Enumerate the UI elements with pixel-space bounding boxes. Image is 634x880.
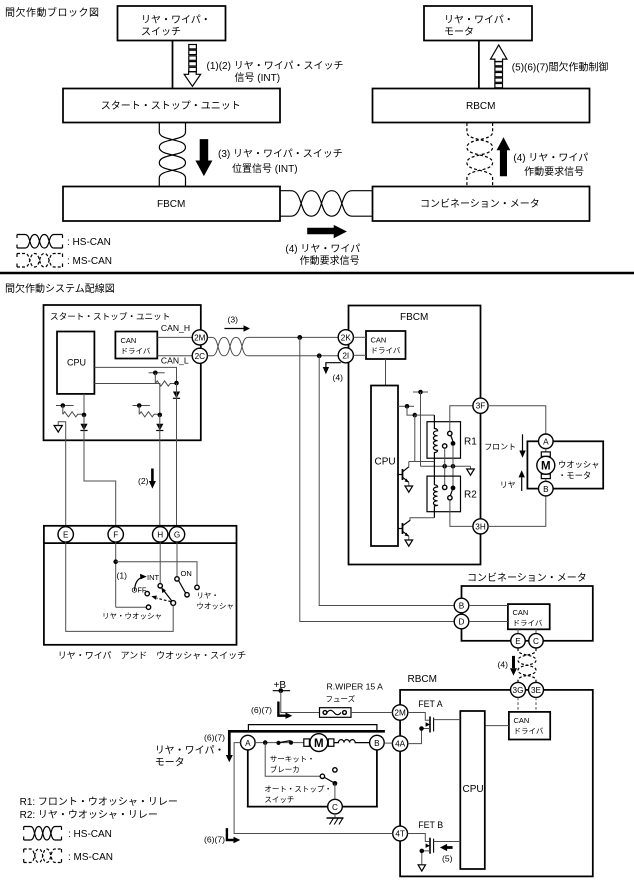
wire 2K to CAN driver (353, 336, 366, 338)
R2 armature (450, 490, 452, 495)
svg-text:CAN: CAN (371, 336, 387, 345)
svg-text:OFF: OFF (132, 586, 147, 595)
wire: H down to INT contact (159, 542, 161, 584)
resistor (unit mid) (139, 412, 160, 417)
relay R1 coil (433, 415, 437, 461)
wire: rail dot down to ground row (420, 392, 422, 466)
box: combination meter (wiring) (462, 586, 593, 641)
svg-text:D: D (459, 618, 465, 627)
connector A (rear motor) (241, 735, 256, 750)
arrow (2) small black down (138, 469, 156, 489)
svg-text:フロント: フロント (484, 443, 516, 452)
rear motor M symbol (304, 734, 334, 752)
svg-text:間欠作動ブロック図: 間欠作動ブロック図 (5, 6, 100, 19)
legend MS-CAN symbol (dashed) (17, 254, 112, 268)
arrow (6)(7) right at fuse (251, 702, 292, 719)
svg-text:フューズ: フューズ (326, 694, 356, 704)
wire: CPU to H line (94, 384, 159, 415)
FET A source wire to 4A (408, 729, 430, 744)
ON switch arm (179, 581, 186, 594)
wire: R1 NC down to R2 NC (444, 448, 446, 485)
junction dot (137, 403, 142, 408)
junction dots + breaker blade (263, 740, 293, 745)
svg-text:(5): (5) (442, 854, 453, 864)
wire: F line down, jog right, to connector F (84, 415, 116, 526)
wire: CPU bottom to F line (83, 394, 85, 415)
FET B symbol (426, 838, 434, 854)
svg-text:スイッチ: スイッチ (264, 795, 294, 804)
CAN_L bus wire (248, 355, 338, 357)
wire D to CAN driver (469, 621, 508, 623)
rear motor bracket (248, 725, 377, 732)
junction dot on G line (174, 381, 179, 386)
connector 2K (338, 330, 353, 345)
svg-text:CAN_H: CAN_H (161, 323, 190, 333)
stub rail with dot (top) (413, 390, 428, 395)
svg-text:R2: リヤ・ウオッシャ・リレー: R2: リヤ・ウオッシャ・リレー (20, 809, 158, 821)
connector G (169, 527, 184, 542)
+B terminal (273, 688, 290, 693)
svg-text:(3) リヤ・ワイパ・スイッチ: (3) リヤ・ワイパ・スイッチ (218, 148, 343, 160)
ground row wire (421, 465, 471, 467)
arrow (4) black up (497, 137, 511, 176)
label (3) wiper switch position signal (218, 148, 343, 175)
relay R1 box (427, 422, 477, 459)
junction dot on H line (158, 413, 163, 418)
box: rear wiper switch (118, 6, 226, 41)
svg-text:: HS-CAN: : HS-CAN (68, 829, 112, 840)
ground (FET B) (418, 865, 425, 871)
svg-text:3G: 3G (513, 686, 524, 695)
wire: pivot down and left to E (66, 542, 174, 631)
wire +B to fuse (281, 691, 320, 713)
dashed wires 3G/3E to CAN driver (518, 697, 536, 712)
svg-text:FET A: FET A (418, 699, 442, 709)
wire down from dot (154, 373, 156, 384)
pullup network top-right: stub (149, 372, 165, 374)
washer contact left (open) (146, 605, 150, 609)
svg-text:(1): (1) (117, 571, 128, 581)
wire: stub dot jog to node (407, 406, 415, 415)
label circuit breaker (270, 755, 315, 775)
FET B source wire to ground (422, 851, 430, 865)
twisted pair HS-CAN FBCM-meter (280, 191, 373, 217)
connector F (108, 527, 123, 542)
divider line (0, 272, 634, 274)
FET A gate wire to CPU (434, 719, 461, 721)
connector 3G (511, 682, 526, 697)
svg-text:C: C (533, 637, 539, 646)
svg-text:(3): (3) (228, 315, 239, 325)
svg-text:リヤ: リヤ (500, 481, 516, 490)
box: RBCM (wiring) (400, 690, 593, 877)
ground (chassis, below C) (327, 814, 344, 825)
svg-text:(4): (4) (498, 660, 509, 670)
svg-text:FBCM: FBCM (157, 199, 185, 210)
svg-text:2I: 2I (342, 351, 349, 360)
R1 armature to NO contact (451, 436, 453, 441)
CAN driver box (meter) (508, 604, 550, 629)
svg-text:2M: 2M (194, 333, 206, 342)
wire: node down to T1 collector row (414, 415, 416, 461)
svg-text:(2): (2) (138, 476, 149, 486)
connector C (rear motor) (328, 799, 343, 814)
arrow (4) black down (meter-RBCM) (498, 656, 518, 676)
svg-text:C: C (332, 803, 338, 812)
FET B drain wire from 4T (408, 834, 430, 842)
svg-text:リヤ・ワイパ・: リヤ・ワイパ・ (155, 745, 225, 757)
svg-text:2M: 2M (394, 709, 406, 718)
svg-text:サーキット・: サーキット・ (270, 755, 315, 764)
wire 3F to washer motor A (488, 406, 546, 434)
R2 NO contact (filled) (451, 486, 456, 491)
curved arrow (1) (117, 571, 147, 592)
ground (T2) (405, 540, 413, 546)
relay R2 coil (433, 462, 437, 518)
wire: switch to start-stop unit (172, 41, 174, 89)
arrow down (front) (519, 434, 525, 457)
arrow (3) thin right (224, 315, 250, 332)
wire down from dot (138, 406, 140, 415)
svg-text:(4) リヤ・ワイパ: (4) リヤ・ワイパ (513, 152, 588, 164)
CAN driver box (unit) (115, 332, 157, 359)
svg-text:H: H (157, 531, 163, 540)
junction dot CAN_L (317, 353, 322, 358)
svg-text:リヤ・: リヤ・ (196, 591, 219, 600)
wire 3F to R1 contact (450, 406, 473, 432)
svg-text:ウオッシャ: ウオッシャ (196, 602, 234, 611)
arrow (4) black right (307, 225, 347, 238)
svg-text:(4) リヤ・ワイパ: (4) リヤ・ワイパ (285, 243, 360, 255)
connector 2C (192, 348, 207, 363)
junction dot (61, 403, 66, 408)
wire rear motor B to 4A (384, 742, 392, 744)
wire down from dot (62, 406, 64, 415)
svg-text:(6)(7): (6)(7) (204, 835, 225, 845)
wire 2I to CAN driver (353, 354, 366, 356)
T1 collector row wire (409, 461, 435, 463)
wire: R2 output to 3H (450, 500, 473, 526)
svg-text:スタート・ストップ・ユニット: スタート・ストップ・ユニット (50, 312, 170, 322)
svg-text:リヤ・ワイパ・: リヤ・ワイパ・ (444, 14, 514, 26)
box: FBCM (block) (63, 187, 280, 222)
connector B (meter) (454, 598, 469, 613)
resistor (unit left) (63, 412, 84, 417)
svg-text:B: B (374, 739, 380, 748)
wire B to CAN driver (469, 605, 508, 607)
svg-text:3H: 3H (475, 522, 486, 531)
junction dot FET A source (419, 726, 424, 731)
svg-text:M: M (314, 738, 324, 750)
wire CAN driver to 2M (157, 336, 192, 338)
transistor T2 (398, 520, 410, 540)
legend MS-CAN symbol (bottom, dashed) (24, 849, 113, 863)
junction dots on ground row (442, 464, 447, 469)
connector 2I (338, 348, 353, 363)
svg-text:作動要求信号: 作動要求信号 (300, 254, 360, 267)
arrow up (rear) (519, 470, 525, 491)
connector rail line (44, 542, 237, 544)
svg-text:モータ: モータ (155, 757, 185, 769)
box: wiper and washer switch (44, 526, 237, 645)
arrow (5) black left (440, 844, 453, 864)
wire: ground to E line (58, 422, 65, 526)
rear motor box (247, 750, 378, 807)
label auto-stop switch (264, 785, 332, 805)
connector B (washer) (539, 481, 554, 496)
arrow (3) black down (195, 139, 212, 176)
connector B (rear motor) (370, 735, 385, 750)
svg-text:CPU: CPU (375, 457, 396, 468)
twisted pair HS-CAN unit-FBCM (159, 123, 185, 187)
svg-text:CAN: CAN (513, 608, 529, 617)
svg-text:スタート・ストップ・ユニット: スタート・ストップ・ユニット (101, 100, 241, 112)
wire: R2 coil bottom to T2 collector (410, 518, 434, 521)
CAN_H bus wire (248, 336, 338, 338)
svg-text:A: A (543, 438, 549, 447)
svg-text:ドライバ: ドライバ (371, 346, 401, 355)
switch arm dashed to OFF (151, 595, 171, 601)
junction dot CAN_H (297, 335, 302, 340)
svg-text:2K: 2K (341, 333, 352, 342)
transistor T1 (398, 462, 409, 487)
inductor (rear motor) (334, 740, 370, 743)
junction dot on F wire (113, 559, 118, 564)
svg-text:F: F (113, 531, 118, 540)
R1 NO contact (filled) (451, 441, 456, 446)
switch arm solid to INT (161, 587, 172, 601)
diode (F line) (80, 424, 87, 431)
svg-text:CAN_L: CAN_L (161, 356, 189, 366)
arrow (6)(7) thick left-down (204, 731, 385, 762)
label (1)(2) rear wiper switch signal (207, 60, 344, 84)
washer motor M symbol (537, 449, 555, 482)
connector 3E (529, 682, 544, 697)
svg-text:CAN: CAN (121, 336, 137, 345)
wire: G down to ON contact (176, 542, 178, 577)
wire: R1 NO down to R2 NO (452, 446, 454, 486)
diode (G line) (173, 392, 180, 399)
wire CAN driver to CPU (RBCM) (485, 725, 509, 727)
svg-text:位置信号 (INT): 位置信号 (INT) (232, 162, 298, 175)
svg-text:3F: 3F (476, 402, 486, 411)
ground (unit) (54, 426, 62, 433)
svg-text:ドライバ: ドライバ (514, 727, 544, 736)
svg-text:リヤ・ワイパ・: リヤ・ワイパ・ (141, 14, 211, 26)
junction dot on F line (82, 413, 87, 418)
svg-text:: MS-CAN: : MS-CAN (68, 852, 113, 863)
wire: H line down to connector H (159, 415, 161, 526)
svg-text:A: A (245, 739, 251, 748)
connector D (meter) (454, 614, 469, 629)
stub from CPU with dot (398, 404, 414, 409)
INT contact (open) (158, 584, 162, 588)
wire: CPU to G line (94, 367, 176, 383)
auto-stop pivot (open) (320, 774, 324, 778)
svg-text:RBCM: RBCM (466, 101, 495, 112)
legend HS-CAN symbol (17, 235, 111, 249)
FET B gate wire to CPU (434, 841, 461, 843)
wire: G line down to connector G (176, 383, 178, 526)
label rear wiper motor (155, 745, 225, 769)
connector E (meter) (511, 634, 525, 648)
svg-text:コンビネーション・メータ: コンビネーション・メータ (420, 198, 540, 210)
box: start-stop unit (wiring) (44, 305, 201, 440)
svg-text:B: B (459, 602, 465, 611)
connector A (washer) (539, 434, 554, 449)
connector E (58, 527, 73, 542)
CAN bus twisted pair unit-FBCM (207, 337, 248, 355)
R1 contact common (open) (448, 431, 452, 435)
ON contact (open) (175, 577, 179, 581)
ground (T1) (405, 486, 413, 492)
svg-text:3E: 3E (531, 686, 542, 695)
CPU box (FBCM) (371, 386, 398, 547)
junction dot (153, 371, 158, 376)
legend HS-CAN symbol (bottom) (24, 827, 112, 841)
box: rear wiper motor (424, 6, 532, 41)
svg-text:(1)(2) リヤ・ワイパ・スイッチ: (1)(2) リヤ・ワイパ・スイッチ (207, 60, 344, 72)
svg-text:(6)(7): (6)(7) (204, 733, 225, 743)
connector 4T (393, 826, 408, 841)
auto-stop upper contact (open) (333, 768, 337, 772)
svg-text:FBCM: FBCM (400, 312, 428, 323)
svg-text:ウオッシャ: ウオッシャ (558, 460, 600, 470)
svg-text:CPU: CPU (463, 784, 484, 795)
svg-text:R1: フロント・ウオッシャ・リレー: R1: フロント・ウオッシャ・リレー (20, 796, 178, 808)
svg-text:M: M (541, 461, 551, 473)
junction dot FET B source (420, 849, 425, 854)
junction dot node (413, 413, 418, 418)
arrow (6)(7) bottom right (204, 828, 240, 844)
FET A symbol (426, 717, 434, 733)
svg-text:(6)(7): (6)(7) (251, 705, 272, 715)
pullup network left: stub (56, 405, 74, 407)
svg-text:E: E (63, 531, 69, 540)
wire: F wire bottom to washer contact left (116, 606, 147, 608)
ground (relay row) (470, 466, 472, 469)
svg-text:作動要求信号: 作動要求信号 (524, 165, 584, 178)
connector H (153, 527, 168, 542)
twisted pair MS-CAN RBCM-meter (dashed) (467, 123, 493, 187)
wire: motor to RBCM (478, 41, 480, 89)
svg-text:FET B: FET B (418, 820, 443, 830)
wire A to breaker (255, 742, 304, 744)
label rear washer (right, 2 lines) (196, 591, 234, 611)
svg-text:(4): (4) (333, 373, 344, 383)
svg-text:CAN: CAN (514, 716, 530, 725)
svg-text:E: E (515, 637, 521, 646)
connector 2M (RBCM) (392, 705, 407, 720)
svg-text:CPU: CPU (67, 358, 86, 368)
wire CAN driver to CPU (385, 359, 387, 386)
diode (H line) (156, 424, 163, 431)
connector 3F (473, 398, 488, 413)
svg-text:(5)(6)(7)間欠作動制御: (5)(6)(7)間欠作動制御 (512, 61, 609, 74)
svg-text:リヤ・ウオッシャ: リヤ・ウオッシャ (102, 612, 162, 621)
svg-text:オート・ストップ・: オート・ストップ・ (264, 785, 332, 794)
svg-text:ブレーカ: ブレーカ (270, 764, 300, 774)
svg-text:G: G (174, 531, 180, 540)
wire fuse to 2M (351, 712, 392, 714)
OFF contact (open) (145, 591, 149, 595)
auto-stop lower contact (filled) (333, 781, 338, 786)
CPU box (RBCM) (460, 711, 485, 869)
washer contact right (open) (195, 585, 199, 589)
wire: CAN_H dot down to D (300, 337, 454, 621)
wire A to 4T (around left/bottom) (234, 743, 393, 834)
pullup network mid: stub (133, 405, 150, 407)
wire auto-stop: dot down and right (265, 743, 320, 777)
svg-text:・モータ: ・モータ (558, 471, 591, 481)
connector 3H (473, 519, 488, 534)
R1 NC contact (open) (443, 444, 447, 448)
svg-text:INT: INT (147, 573, 160, 582)
box: start-stop unit (block) (63, 89, 280, 123)
FET A drain wire from 2M (408, 713, 430, 721)
R2 output contact (open) (448, 496, 452, 500)
dashed twisted pair meter to RBCM (518, 648, 536, 682)
ladder arrow (5)(6)(7) up (491, 45, 507, 88)
box: FBCM (wiring) (349, 306, 481, 565)
wire CAN driver to 2C (157, 355, 192, 357)
wire: CAN_L dot down to B (319, 356, 454, 606)
svg-text:スイッチ: スイッチ (141, 26, 181, 38)
arrow (4) L-shaped down (323, 363, 343, 383)
wire: dot right and down to washer contact (116, 562, 197, 586)
switch pivot contact (open) (171, 601, 176, 606)
R2 NC contact (open) (443, 485, 447, 489)
CAN driver box (RBCM) (509, 712, 550, 740)
ladder arrow (1)(2) down (184, 45, 200, 87)
resistor (unit top-right) (155, 381, 176, 386)
svg-text:RBCM: RBCM (408, 674, 437, 685)
connector C (meter) (529, 634, 543, 648)
connector 2M (192, 330, 207, 345)
svg-text:ドライバ: ドライバ (121, 347, 151, 356)
fuse symbol (320, 708, 352, 718)
CPU box (unit) (57, 332, 94, 394)
box: RBCM (block) (373, 89, 590, 123)
label (4) wiper request signal (right) (513, 152, 588, 178)
wire CAN driver to E (517, 629, 519, 633)
ON arm lower contact (open) (185, 593, 189, 597)
svg-text:コンビネーション・メータ: コンビネーション・メータ (467, 572, 587, 584)
CAN driver box (FBCM) (366, 331, 406, 359)
wire lower contact to C (334, 783, 336, 799)
svg-text:R2: R2 (464, 490, 477, 501)
svg-text:: HS-CAN: : HS-CAN (67, 237, 111, 248)
label (4) wiper request signal (bottom) (285, 243, 360, 267)
wire: F down inside switch (115, 542, 117, 607)
wire CAN driver to C (535, 629, 537, 633)
svg-text:信号 (INT): 信号 (INT) (235, 72, 281, 84)
relay R2 box (427, 476, 477, 512)
wire: node to coil column (415, 414, 435, 416)
box: combination meter (block) (373, 187, 590, 222)
svg-text:間欠作動システム配線図: 間欠作動システム配線図 (5, 282, 115, 295)
svg-text:R1: R1 (464, 437, 477, 448)
svg-text:4A: 4A (395, 740, 406, 749)
svg-text:4T: 4T (395, 830, 405, 839)
wire washer motor B to 3H (488, 496, 546, 527)
svg-text:モータ: モータ (444, 26, 474, 38)
svg-text:ON: ON (181, 569, 192, 578)
svg-text:ドライバ: ドライバ (513, 619, 543, 628)
washer motor box (527, 441, 603, 488)
connector 4A (392, 736, 407, 751)
svg-text:: MS-CAN: : MS-CAN (67, 256, 112, 267)
